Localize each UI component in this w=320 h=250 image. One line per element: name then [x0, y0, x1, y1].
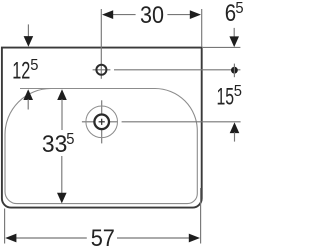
- washbasin outer outline: [2, 48, 202, 208]
- svg-text:5: 5: [66, 131, 74, 148]
- dim 12.5: up arrow: [23, 89, 33, 100]
- dot tick vertical: [233, 64, 235, 78]
- svg-text:5: 5: [234, 83, 242, 100]
- dim 30: dimension line: [112, 14, 136, 16]
- dim 57: left extension line: [4, 209, 6, 244]
- svg-text:57: 57: [91, 225, 115, 250]
- dim 33.5: down arrow: [57, 193, 67, 204]
- rim line extension (left, for 12.5 dim): [20, 88, 52, 90]
- dim 57: left arrow: [5, 234, 16, 243]
- dim 6.5: top edge extension line: [203, 46, 240, 48]
- dim 6.5/15.5: dot terminator: [231, 67, 238, 74]
- svg-text:15: 15: [217, 84, 235, 111]
- drain centerline horizontal: [82, 121, 94, 123]
- drain center cross: [99, 121, 105, 123]
- dim 15.5: up arrow: [230, 122, 240, 133]
- dim 15.5: tail line: [234, 132, 236, 141]
- dim 12.5: down arrow: [24, 36, 34, 47]
- dim 12.5: lower tail line: [27, 99, 29, 109]
- basin inner rim: [5, 89, 197, 204]
- dim 30: right arrow: [190, 10, 201, 19]
- svg-text:12: 12: [12, 57, 30, 84]
- drain hole: [94, 115, 109, 130]
- dim 57: right arrow: [189, 234, 200, 243]
- svg-text:30: 30: [140, 2, 164, 29]
- dim 6.5: tail line: [233, 28, 235, 37]
- dim 33.5: up arrow: [57, 89, 67, 100]
- drain outer circle: [86, 106, 118, 138]
- dim 57: right extension line: [200, 188, 202, 244]
- faucet hole centerline horizontal: [93, 69, 111, 71]
- svg-text:5: 5: [30, 57, 38, 74]
- faucet hole centerline vertical: [100, 9, 102, 79]
- dim 33.5: lower tail line: [61, 156, 63, 195]
- dim 6.5: down arrow: [229, 36, 239, 47]
- svg-text:33: 33: [42, 131, 67, 158]
- drain centerline vertical: [101, 100, 103, 113]
- faucet hole: [96, 65, 106, 75]
- svg-text:5: 5: [235, 0, 243, 17]
- dim 33.5: upper tail line: [61, 99, 63, 130]
- dim 30: left arrow: [102, 10, 113, 19]
- dim 30: right extension line: [201, 9, 203, 47]
- dim 12.5: upper tail line: [27, 24, 29, 37]
- dim 57: dimension line: [16, 237, 87, 239]
